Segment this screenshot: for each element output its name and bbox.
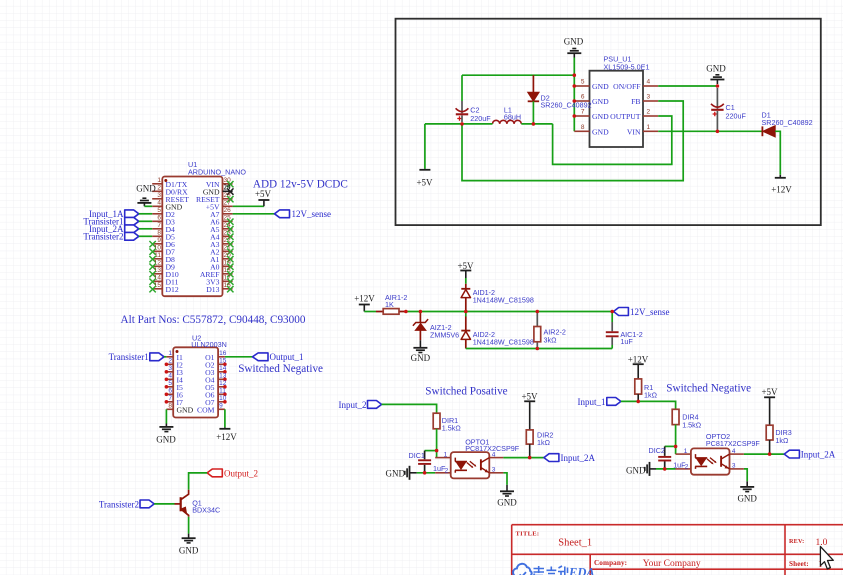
node Input_1 flag (578, 397, 621, 407)
pin 29 GND (203, 184, 234, 197)
wire D1 anode to +12V (775, 131, 780, 175)
diode AID2-2 1N4148W_C81598 (461, 312, 534, 349)
pin 26 A7 (210, 207, 233, 219)
resistor DIR3 1kOhm (766, 425, 792, 454)
svg-text:5: 5 (157, 207, 161, 214)
svg-text:12V_sense: 12V_sense (292, 209, 332, 219)
svg-text:1: 1 (444, 451, 448, 458)
svg-text:D13: D13 (206, 285, 219, 294)
power +12V (U2) (216, 427, 237, 442)
wire Q1 emitter to ground (188, 517, 190, 534)
svg-text:1K: 1K (385, 300, 394, 309)
svg-text:1kΩ: 1kΩ (775, 436, 789, 445)
pin 6 I6 (165, 387, 183, 399)
node junction pin4 net (SN) (768, 452, 772, 456)
capacitor DIC1 1uF (409, 451, 446, 473)
resistor AIR1-2 1K (376, 293, 407, 314)
PSU block outline frame (396, 19, 821, 225)
node junction AID tap (464, 310, 468, 314)
svg-text:TITLE:: TITLE: (516, 531, 540, 538)
op-amp U1 regulator PSU_U1 XL1509-5.0E1 body (590, 55, 650, 148)
wire D2 cathode to output node (532, 101, 534, 124)
svg-text:1N4148W_C81598: 1N4148W_C81598 (473, 296, 534, 305)
svg-text:ON/OFF: ON/OFF (613, 82, 640, 91)
svg-text:+5V: +5V (761, 387, 778, 397)
node 12V_sense flag (sense) (614, 307, 670, 317)
wire FB pin3 loop (462, 101, 683, 181)
svg-text:Input_2A: Input_2A (561, 453, 596, 463)
annotation Switched Negative (U2) (238, 363, 323, 375)
svg-text:12V_sense: 12V_sense (630, 307, 670, 317)
pin 23 A4 (210, 229, 233, 241)
pin 2 I2 (165, 357, 183, 369)
phototransistor inside OPTO2 (721, 454, 729, 469)
wire sense bottom rail (466, 348, 612, 350)
pin 1 OPTO1 anode (435, 451, 451, 458)
svg-text:1: 1 (157, 177, 161, 184)
pin 11 D8 (149, 252, 175, 264)
svg-text:Switched Negative: Switched Negative (666, 382, 751, 394)
capacitor C2 220uF (456, 101, 492, 123)
svg-text:+5V: +5V (416, 178, 433, 188)
pin 4 GND (152, 199, 182, 211)
pin 1 VIN (627, 124, 658, 137)
node junction D2 bottom (532, 122, 536, 126)
svg-text:19: 19 (224, 259, 232, 266)
svg-text:7: 7 (581, 109, 585, 116)
pin 7 I7 (165, 395, 183, 407)
node junction DIR1 bottom (435, 449, 439, 453)
pin 15 D12 (149, 282, 178, 294)
ground GND (OPTO1) (497, 485, 517, 507)
pin 18 AREF (200, 267, 234, 279)
ground GND (Q1) (179, 534, 199, 556)
wire GND to OPTO1 pin2 (417, 472, 435, 474)
wire sense rail (406, 311, 612, 313)
op-amp U1 ARDUINO_NANO body (162, 160, 246, 296)
svg-text:XL1509-5.0E1: XL1509-5.0E1 (604, 63, 650, 72)
wire OPTO2 pin3 to ground (744, 469, 747, 481)
svg-text:GND: GND (177, 405, 194, 414)
title block Sheet number (789, 560, 823, 570)
svg-text:GND: GND (592, 82, 609, 91)
svg-text:4: 4 (168, 372, 172, 379)
pin 2 D0/RX (152, 184, 188, 196)
svg-text:D12: D12 (166, 285, 179, 294)
svg-text:3kΩ: 3kΩ (544, 335, 558, 344)
pin 20 A1 (210, 252, 233, 264)
pin 6 D3 (152, 214, 175, 226)
svg-text:Switched Posative: Switched Posative (425, 386, 507, 398)
mouse cursor (820, 547, 833, 569)
node junction C2 bottom (460, 122, 464, 126)
svg-text:GND: GND (592, 112, 609, 121)
svg-text:28: 28 (224, 192, 232, 199)
svg-text:22: 22 (224, 237, 232, 244)
svg-text:Sheet:: Sheet: (789, 560, 809, 568)
pin 3 OPTO1 emitter (489, 466, 503, 473)
power +5V (sense clamp) (457, 261, 474, 278)
svg-text:GND: GND (592, 97, 609, 106)
wire Input_1A to pin5 (139, 213, 152, 215)
op-amp U2 ULN2003N body (173, 333, 227, 417)
svg-text:20: 20 (224, 252, 232, 259)
svg-text:+5V: +5V (457, 261, 474, 271)
pin 8 D5 (152, 229, 175, 241)
svg-text:DIC2: DIC2 (649, 446, 665, 455)
svg-text:+12V: +12V (771, 185, 792, 195)
svg-text:1: 1 (647, 124, 651, 131)
wire +5V to AID1-2 (465, 278, 467, 284)
svg-text:ADD 12v-5V DCDC: ADD 12v-5V DCDC (253, 178, 348, 190)
pin 24 A5 (210, 222, 233, 234)
LED inside OPTO2 (695, 454, 716, 469)
resistor R1 1kOhm (635, 379, 658, 402)
svg-text:BDX34C: BDX34C (192, 505, 220, 514)
svg-text:GND: GND (706, 64, 726, 74)
capacitor C1 220uF (711, 88, 746, 130)
node junction C1 bottom (716, 130, 720, 134)
wire Transister2 to Q1 base (154, 503, 174, 505)
svg-text:9: 9 (157, 237, 161, 244)
pin 5 D2 (152, 207, 175, 219)
svg-text:5: 5 (581, 79, 585, 86)
svg-text:3: 3 (647, 94, 651, 101)
node junction pin5 (573, 84, 577, 88)
pin 14 O3 (205, 365, 227, 377)
svg-text:7: 7 (168, 395, 172, 402)
svg-text:4: 4 (492, 451, 496, 458)
resistor DIR2 1kOhm (526, 430, 553, 458)
svg-text:GND: GND (386, 469, 406, 479)
svg-text:VIN: VIN (627, 127, 641, 136)
pin 14 D11 (149, 274, 178, 286)
pin 4 OPTO2 collector (730, 448, 744, 455)
svg-text:23: 23 (224, 229, 232, 236)
svg-text:Switched Negative: Switched Negative (238, 363, 323, 375)
pin 9 D6 (149, 237, 175, 249)
LED inside OPTO1 (455, 458, 476, 473)
wire GND to OPTO2 pin2 (656, 468, 676, 470)
ground GND (above C1) (706, 64, 726, 85)
svg-text:2: 2 (647, 109, 651, 116)
annotation Switched Negative (section) (666, 382, 751, 394)
svg-text:1.0: 1.0 (816, 538, 828, 548)
svg-text:ULN2003N: ULN2003N (191, 340, 227, 349)
node junction AIR1-2 right (404, 310, 408, 314)
svg-text:1.5kΩ: 1.5kΩ (682, 421, 702, 430)
node Output_1 flag (253, 352, 304, 362)
resistor DIR1 1.5kOhm (433, 413, 461, 450)
svg-text:ARDUINO_NANO: ARDUINO_NANO (188, 167, 246, 176)
node Transister2 flag (Q1) (99, 499, 154, 509)
node 12V_sense flag (arduino) (275, 209, 332, 219)
svg-text:1kΩ: 1kΩ (537, 438, 551, 447)
wire +12V to AIR1-2 (364, 311, 376, 313)
svg-text:3: 3 (168, 365, 172, 372)
pin 16 D13 (206, 282, 233, 294)
node junction C1 top (716, 84, 720, 88)
node junction at GND bus top (573, 73, 577, 77)
svg-text:EDA: EDA (568, 566, 595, 575)
svg-text:ZMM5V6: ZMM5V6 (430, 331, 459, 340)
svg-text:26: 26 (224, 207, 232, 214)
node junction AIC1-2 top (610, 310, 614, 314)
pin 12 D9 (149, 259, 175, 271)
node junction AIR2-2 top (536, 310, 540, 314)
wire Q1 collector to Output_2 (189, 473, 208, 490)
pin 3 RESET (152, 192, 189, 204)
svg-text:OUTPUT: OUTPUT (610, 112, 641, 121)
node Input_2 flag (339, 400, 382, 410)
logo EDA characters (534, 566, 595, 575)
pin 7 GND (574, 109, 609, 122)
svg-text:1kΩ: 1kΩ (644, 391, 658, 400)
svg-text:8: 8 (157, 229, 161, 236)
pin 6 GND (574, 94, 609, 107)
pin 13 D10 (149, 267, 178, 279)
pin 15 O2 (205, 357, 227, 369)
pin 3 I3 (165, 365, 183, 377)
resistor DIR4 1.5kOhm (672, 409, 702, 446)
inductor L1 68uH (493, 106, 522, 124)
pin 30 VIN (206, 177, 234, 189)
svg-text:Output_1: Output_1 (270, 352, 304, 362)
pin 8 GND (574, 124, 609, 137)
capacitor DIC2 1uF (649, 446, 687, 470)
svg-text:Input_2: Input_2 (339, 400, 367, 410)
svg-text:DIC1: DIC1 (409, 451, 425, 460)
wire junction to OPTO2 pin1 (675, 446, 677, 454)
svg-text:GND: GND (737, 493, 757, 503)
svg-text:4: 4 (157, 199, 161, 206)
pin 4 I4 (165, 372, 183, 384)
pin 2 OPTO2 cathode (676, 463, 691, 470)
svg-text:GND: GND (136, 183, 156, 193)
transistor Q1 BDX34C (175, 490, 221, 517)
svg-text:9: 9 (219, 402, 223, 409)
svg-text:6: 6 (581, 94, 585, 101)
wire VIN pin1 to D1 (658, 130, 762, 132)
node Transister1 flag (83, 217, 138, 227)
pin 21 A2 (210, 244, 233, 256)
svg-text:1uF: 1uF (620, 337, 633, 346)
svg-text:Alt Part Nos: C557872, C90448,: Alt Part Nos: C557872, C90448, C93000 (121, 314, 306, 326)
svg-text:2: 2 (445, 467, 449, 474)
annotation Alt Part Nos (121, 314, 306, 326)
svg-text:GND: GND (564, 37, 584, 47)
svg-text:2: 2 (168, 357, 172, 364)
wire OPTO1 pin3 to ground (503, 473, 507, 485)
wire Transister1 to pin6 (139, 220, 152, 222)
pin 2 OUTPUT (610, 109, 658, 122)
svg-text:+5V: +5V (255, 189, 272, 199)
ground GND (DIC1, rotated) (386, 466, 417, 480)
pin 2 OPTO1 cathode (435, 467, 451, 474)
logo EDA cloud (513, 564, 532, 575)
svg-text:11: 11 (154, 252, 161, 259)
svg-text:16: 16 (224, 282, 232, 289)
svg-text:Your Company: Your Company (643, 559, 701, 569)
wire U2 pin8 to ground (165, 409, 167, 423)
svg-text:7: 7 (157, 222, 161, 229)
pin 3 FB (631, 94, 658, 107)
svg-text:+12V: +12V (628, 354, 649, 364)
pin 1 OPTO2 anode (676, 448, 691, 455)
pin 1 D1/TX (152, 177, 188, 189)
ground GND (OPTO2) (737, 481, 757, 503)
svg-text:4: 4 (647, 79, 651, 86)
diode AIZ1-2 ZMM5V6 zener (413, 312, 459, 341)
diode D2 SR260_C40892 (528, 75, 592, 109)
pin 10 D7 (149, 244, 175, 256)
svg-text:8: 8 (581, 124, 585, 131)
power +5V (DIR2) (521, 391, 538, 430)
svg-text:Input_1: Input_1 (578, 397, 606, 407)
annotation Switched Posative (425, 386, 507, 398)
wire OPTO1 pin4 to junction (503, 457, 544, 459)
wire Input_1 to DIR4 (621, 401, 676, 409)
wire OPTO2 pin4 to junction (744, 453, 784, 455)
wire OUTPUT pin2 loop (553, 116, 672, 164)
svg-text:220uF: 220uF (726, 112, 747, 121)
svg-text:6: 6 (157, 214, 161, 221)
op-amp OPTO1 PC817X2CSP9F body (451, 437, 520, 478)
title block REV (789, 538, 828, 548)
svg-text:1: 1 (684, 448, 688, 455)
svg-text:4: 4 (732, 448, 736, 455)
wire GND to pin4 (144, 205, 152, 207)
svg-text:Company:: Company: (594, 559, 627, 567)
node junction DIR4 bottom (674, 445, 678, 449)
ground GND (U2) (156, 424, 176, 445)
svg-text:6: 6 (168, 387, 172, 394)
diode D1 SR260_C40892 (762, 111, 813, 138)
node Output_2 flag (207, 468, 258, 478)
svg-text:220uF: 220uF (470, 114, 491, 123)
svg-text:COM: COM (197, 405, 215, 414)
pin 8 GND (166, 402, 193, 414)
wire pin4 ON/OFF to GND cap node (658, 85, 717, 87)
svg-text:+12V: +12V (216, 432, 237, 442)
wire +5V output rail y=123.9 (425, 123, 553, 125)
pin 4 ON/OFF (613, 79, 658, 92)
pin 19 A0 (210, 259, 233, 271)
svg-text:Sheet_1: Sheet_1 (558, 537, 592, 548)
svg-text:3: 3 (492, 466, 496, 473)
pin 11 O6 (205, 387, 227, 399)
svg-text:SR260_C40892: SR260_C40892 (541, 101, 592, 110)
svg-text:GND: GND (411, 353, 431, 363)
node Transister2 flag (83, 232, 138, 242)
svg-text:+12V: +12V (354, 294, 375, 304)
title block TITLE label (516, 531, 540, 538)
node junction R1 bottom (636, 400, 640, 404)
power +5V (DIR3) (761, 387, 778, 425)
pin 7 D4 (152, 222, 175, 234)
pin 5 GND (574, 79, 609, 92)
svg-text:REV:: REV: (789, 538, 804, 545)
power +12V (sense) (354, 294, 375, 312)
pin 27 +5V (206, 199, 233, 211)
node Input_2A flag (SN) (784, 450, 836, 460)
node Transister1 flag (U2) (109, 352, 164, 362)
svg-text:+5V: +5V (521, 391, 538, 401)
ground GND (zener) (411, 340, 431, 363)
svg-text:GND: GND (156, 435, 176, 445)
node junction DIC1 bottom (423, 471, 427, 475)
wire Transister1 to U2 pin1 (164, 356, 166, 358)
svg-text:17: 17 (224, 274, 232, 281)
node Input_2A flag (SP) (544, 453, 596, 463)
node junction zener tap (419, 310, 423, 314)
pin 28 RESET (196, 192, 234, 204)
svg-text:24: 24 (224, 222, 232, 229)
ground GND (arduino pin4) (136, 183, 156, 206)
pin 13 O4 (205, 372, 227, 384)
power +5V (PSU) (416, 124, 433, 188)
node junction pin4 net (528, 456, 532, 460)
resistor AIR2-2 3kOhm (534, 312, 566, 349)
pin 5 I5 (165, 380, 183, 392)
svg-text:1N4148W_C81598: 1N4148W_C81598 (473, 337, 534, 346)
svg-text:1: 1 (168, 350, 172, 357)
svg-text:27: 27 (224, 199, 232, 206)
title block frame (512, 525, 843, 575)
svg-text:Input_2A: Input_2A (801, 450, 836, 460)
svg-text:FB: FB (631, 97, 640, 106)
svg-text:GND: GND (592, 127, 609, 136)
phototransistor inside OPTO1 (481, 458, 489, 473)
ground GND (top of PSU) (564, 37, 584, 58)
power +12V (R1) (628, 354, 649, 379)
svg-text:GND: GND (497, 497, 517, 507)
node junction DIC2 bottom (663, 467, 667, 471)
svg-text:16: 16 (219, 350, 227, 357)
svg-text:Output_2: Output_2 (224, 468, 258, 478)
svg-text:3: 3 (732, 463, 736, 470)
wire Transister2 to pin8 (139, 235, 152, 237)
node junction pin6 (573, 99, 577, 103)
node Input_2A flag (89, 224, 139, 234)
wire Input_2 to DIR1 (382, 404, 437, 413)
pin 3 OPTO2 emitter (730, 463, 744, 470)
diode AID1-2 1N4148W_C81598 (461, 284, 534, 312)
pin 25 A6 (210, 214, 233, 226)
svg-text:2: 2 (685, 463, 689, 470)
node junction pin7 (573, 114, 577, 118)
wire GND net to chip left bus (462, 58, 574, 132)
pin 1 I1 (166, 350, 183, 362)
pin 17 3V3 (206, 274, 233, 286)
svg-text:68uH: 68uH (504, 112, 521, 121)
wire Input_2A to pin7 (139, 228, 152, 230)
svg-text:Transister1: Transister1 (109, 352, 149, 362)
op-amp OPTO2 PC817X2CSP9F body (691, 432, 761, 475)
wire U2 pin16 to Output_1 (225, 356, 253, 358)
svg-text:GND: GND (626, 466, 646, 476)
svg-text:21: 21 (224, 244, 232, 251)
svg-text:8: 8 (168, 402, 172, 409)
capacitor AIC1-2 1uF (606, 312, 643, 349)
svg-text:5: 5 (168, 380, 172, 387)
pin 12 O5 (205, 380, 227, 392)
wire junction to OPTO1 pin1 (436, 451, 438, 458)
node Input_1A flag (89, 209, 139, 219)
pin 10 O7 (205, 395, 227, 407)
svg-text:GND: GND (179, 546, 199, 556)
power +5V (arduino pin27) (233, 189, 272, 206)
